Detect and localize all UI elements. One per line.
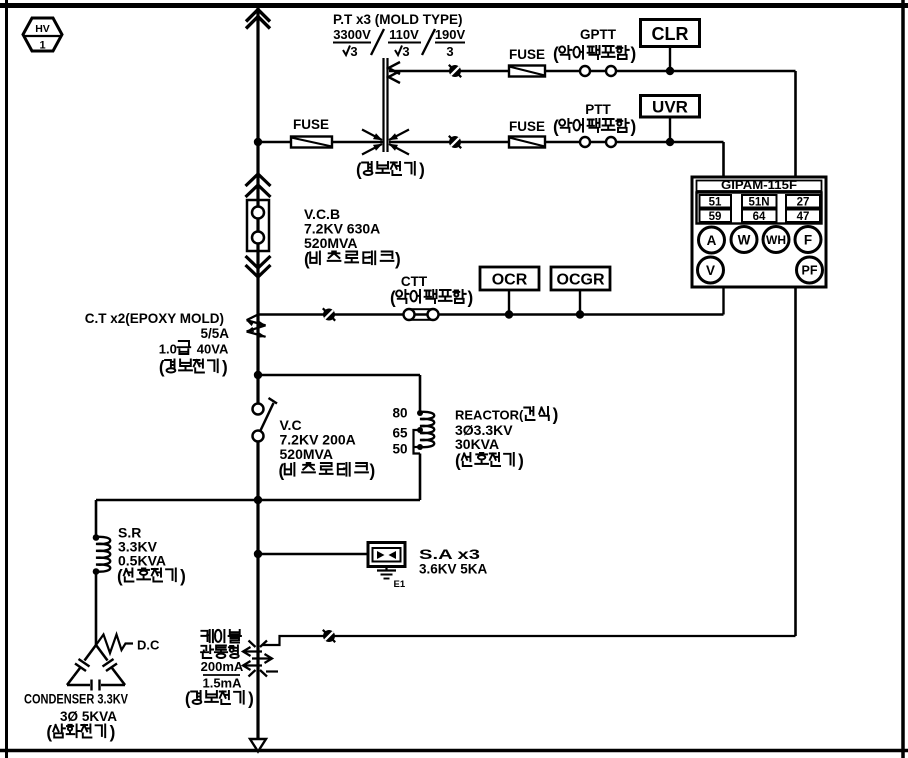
protection relay GIPAM-115F xyxy=(692,177,826,287)
meter V xyxy=(698,257,724,283)
svg-text:(: ( xyxy=(553,117,559,137)
svg-text:51N: 51N xyxy=(748,196,769,208)
meter A xyxy=(699,227,725,253)
svg-text:): ) xyxy=(222,357,228,377)
circuit breaker VCB drawout arrows lower xyxy=(246,256,271,277)
current transformer CT zigzag xyxy=(246,315,266,338)
wire GIPAM down to cable CT line xyxy=(794,287,797,636)
svg-text:(: ( xyxy=(117,566,123,586)
disconnect-slash symbol xyxy=(323,630,335,642)
svg-text:CTT: CTT xyxy=(401,274,428,289)
SA labels xyxy=(419,547,488,577)
svg-text:E1: E1 xyxy=(394,579,406,590)
relay OCGR box xyxy=(551,267,610,290)
svg-text:P.T x3 (MOLD TYPE): P.T x3 (MOLD TYPE) xyxy=(333,12,463,27)
svg-text:PTT: PTT xyxy=(585,102,611,117)
svg-text:UVR: UVR xyxy=(652,98,688,117)
node SR bottom xyxy=(93,568,100,575)
svg-text:(: ( xyxy=(159,357,165,377)
wire bus to PT fuse xyxy=(258,141,291,143)
svg-text:59: 59 xyxy=(709,211,722,223)
condenser labels xyxy=(24,692,128,743)
condenser delta bank xyxy=(67,645,125,691)
wire bus to SA xyxy=(258,553,368,556)
node SA junction xyxy=(254,550,262,558)
wire UVR stub xyxy=(669,117,671,142)
ratio slash 1 xyxy=(371,29,384,55)
wire SR to condenser xyxy=(95,571,98,645)
svg-text:OCGR: OCGR xyxy=(557,272,605,289)
relay element 51 xyxy=(700,195,732,208)
CT labels xyxy=(85,311,230,377)
ground E1 xyxy=(377,567,406,591)
node SR top xyxy=(93,534,100,541)
svg-text:): ) xyxy=(110,722,116,742)
wire VC loop top xyxy=(258,374,420,377)
svg-text:FUSE: FUSE xyxy=(293,117,329,132)
wire PT to GPTT line xyxy=(389,70,796,72)
node OCR junction xyxy=(505,310,513,318)
discharge resistor DC xyxy=(96,635,133,654)
circuit breaker VCB xyxy=(247,200,269,251)
VC labels xyxy=(279,417,376,481)
svg-text:520MVA: 520MVA xyxy=(304,235,357,251)
incoming line arrows xyxy=(246,10,270,29)
node PT tap junction xyxy=(254,138,262,146)
PT primary winding arrows xyxy=(362,130,409,155)
svg-text:HV: HV xyxy=(35,23,50,35)
potential transformer PT x3 core xyxy=(384,58,388,152)
svg-text:): ) xyxy=(553,405,559,425)
wire CT line riser to GIPAM xyxy=(722,287,724,315)
CTT note alligator-clip xyxy=(390,288,473,308)
wire VC loop bottom xyxy=(96,499,420,502)
svg-text:): ) xyxy=(180,566,186,586)
node UVR junction xyxy=(666,138,674,146)
wire fuse to PT xyxy=(332,141,384,143)
svg-text:S.A x3: S.A x3 xyxy=(419,547,481,562)
wire cable CT tap upper xyxy=(262,636,796,645)
node reactor tap 50 xyxy=(417,444,423,450)
svg-text:): ) xyxy=(395,249,401,269)
reactor tap bracket xyxy=(414,430,421,454)
wire GPTT line to GIPAM xyxy=(794,71,797,177)
VCB labels xyxy=(304,206,401,269)
fuse F1 xyxy=(291,137,332,148)
svg-text:1.0: 1.0 xyxy=(159,342,177,357)
wire reactor to loop bottom xyxy=(419,454,422,501)
PT ratio 3300V over sqrt3 xyxy=(333,27,371,59)
svg-text:(: ( xyxy=(279,461,285,481)
svg-text:(: ( xyxy=(185,689,191,709)
svg-text:CLR: CLR xyxy=(652,24,689,44)
cable CT labels xyxy=(185,630,254,709)
GPTT note alligator-clip xyxy=(553,44,636,64)
relay element 27 xyxy=(786,195,820,208)
disconnect-slash symbol xyxy=(449,136,461,148)
svg-text:80: 80 xyxy=(392,406,407,421)
svg-text:): ) xyxy=(630,44,636,64)
PT maker label Kyongbo xyxy=(356,160,425,180)
disconnect-slash symbol xyxy=(323,308,335,320)
wire reactor drop xyxy=(419,375,422,413)
PT secondary winding arrows xyxy=(389,62,401,83)
relay element 47 xyxy=(786,210,820,223)
wire CLR stub xyxy=(669,47,671,72)
relay element 64 xyxy=(742,210,777,223)
svg-text:PF: PF xyxy=(802,264,818,278)
svg-text:): ) xyxy=(467,288,473,308)
fuse F2 xyxy=(509,66,545,77)
reactor tap labels 80 65 50 xyxy=(392,406,408,457)
svg-text:3.6KV 5KA: 3.6KV 5KA xyxy=(419,562,488,577)
svg-text:WH: WH xyxy=(766,233,786,247)
svg-text:3: 3 xyxy=(446,44,453,59)
svg-text:GPTT: GPTT xyxy=(580,27,617,42)
svg-text:(: ( xyxy=(356,160,362,180)
ratio slash 2 xyxy=(422,29,435,55)
relay element 51N xyxy=(742,195,777,208)
svg-text:5/5A: 5/5A xyxy=(200,326,229,341)
relay UVR box xyxy=(641,96,700,118)
reactor labels xyxy=(455,405,558,471)
meter PF xyxy=(797,257,823,283)
node VC loop top junction xyxy=(254,371,262,379)
svg-text:): ) xyxy=(518,451,524,471)
svg-text:FUSE: FUSE xyxy=(509,119,545,134)
svg-text:51: 51 xyxy=(709,196,722,208)
svg-text:C.T x2(EPOXY MOLD): C.T x2(EPOXY MOLD) xyxy=(85,311,224,326)
svg-text:47: 47 xyxy=(797,211,810,223)
svg-text:CONDENSER 3.3KV: CONDENSER 3.3KV xyxy=(24,692,128,707)
fuse F3 xyxy=(509,137,545,148)
circuit breaker VCB drawout arrows upper xyxy=(246,174,271,197)
node CLR junction xyxy=(666,67,674,75)
svg-text:(: ( xyxy=(46,722,52,742)
svg-text:27: 27 xyxy=(797,196,810,208)
svg-text:190V: 190V xyxy=(435,27,466,42)
test terminals GPTT xyxy=(580,66,616,76)
outgoing feeder arrow xyxy=(250,739,266,752)
svg-text:30KVA: 30KVA xyxy=(455,436,499,452)
svg-text:1.5mA: 1.5mA xyxy=(202,676,242,691)
disconnect-slash symbol xyxy=(449,65,461,77)
svg-text:F: F xyxy=(804,232,812,247)
svg-text:W: W xyxy=(738,232,751,247)
wire OCGR stub xyxy=(579,290,581,315)
svg-text:0.5KVA: 0.5KVA xyxy=(118,553,166,569)
svg-text:110V: 110V xyxy=(389,27,419,42)
meter W xyxy=(731,227,757,253)
svg-text:): ) xyxy=(248,689,254,709)
svg-text:): ) xyxy=(419,160,425,180)
svg-text:D.C: D.C xyxy=(137,638,160,653)
meter F xyxy=(795,227,821,253)
svg-text:520MVA: 520MVA xyxy=(280,446,333,462)
svg-text:): ) xyxy=(369,461,375,481)
node reactor tap 65 xyxy=(417,427,423,433)
svg-text:40VA: 40VA xyxy=(197,342,229,357)
wire SR branch drop xyxy=(95,500,98,538)
wire CT secondary line xyxy=(258,313,724,315)
svg-text:1: 1 xyxy=(39,40,45,52)
PT ratio 110V over sqrt3 xyxy=(388,27,421,59)
lamp CLR box xyxy=(641,20,700,47)
svg-text:3300V: 3300V xyxy=(333,27,371,42)
svg-text:3: 3 xyxy=(350,44,357,59)
switch VC xyxy=(253,398,278,442)
wire cable CT tap lower xyxy=(266,670,278,672)
reactor coil xyxy=(420,412,434,447)
svg-text:A: A xyxy=(707,233,717,248)
svg-text:50: 50 xyxy=(392,442,407,457)
node VC loop bottom junction xyxy=(254,496,262,504)
svg-text:OCR: OCR xyxy=(492,272,528,289)
test terminals PTT xyxy=(580,137,616,147)
relay OCR box xyxy=(480,267,539,290)
relay element 59 xyxy=(700,210,732,223)
svg-text:200mA: 200mA xyxy=(201,659,244,674)
svg-text:(: ( xyxy=(304,249,310,269)
svg-text:): ) xyxy=(630,117,636,137)
node OCGR junction xyxy=(576,310,584,318)
node reactor tap 80 xyxy=(417,410,423,416)
meter WH xyxy=(763,227,789,253)
svg-text:GIPAM-115F: GIPAM-115F xyxy=(721,180,797,192)
main incoming bus wire xyxy=(256,6,259,740)
svg-text:(: ( xyxy=(455,451,461,471)
wire PT to PTT line xyxy=(389,141,724,143)
svg-text:REACTOR(: REACTOR( xyxy=(455,408,524,423)
wire OCR stub xyxy=(508,290,510,315)
surge arrester SA xyxy=(368,543,405,567)
PTT note alligator-clip xyxy=(553,117,636,137)
svg-text:V: V xyxy=(706,263,715,278)
test terminal CTT xyxy=(404,309,439,320)
svg-text:(: ( xyxy=(553,44,559,64)
svg-text:64: 64 xyxy=(753,211,766,223)
PT ratio 190V over 3 xyxy=(435,27,466,59)
svg-text:65: 65 xyxy=(392,426,408,441)
svg-text:(: ( xyxy=(390,288,396,308)
svg-text:3: 3 xyxy=(402,44,409,59)
SR labels xyxy=(117,525,186,587)
cable CT zigzag xyxy=(243,641,272,677)
series reactor SR coil xyxy=(96,537,110,572)
wire PTT line to GIPAM xyxy=(722,142,725,177)
svg-text:FUSE: FUSE xyxy=(509,47,545,62)
HV1 drawing reference hexagon xyxy=(23,18,62,52)
